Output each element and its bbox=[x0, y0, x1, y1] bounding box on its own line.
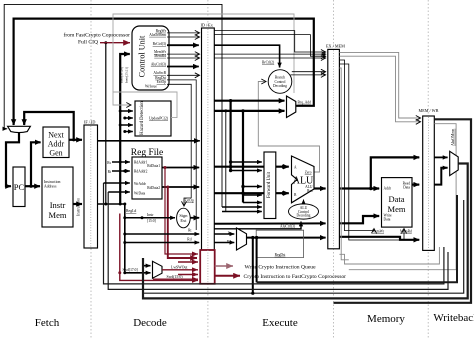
svg-text:from FastCrypto Coprocessor: from FastCrypto Coprocessor bbox=[64, 32, 131, 39]
Data Mem bbox=[382, 178, 413, 228]
LwSw mux bbox=[153, 261, 163, 278]
svg-text:Memory: Memory bbox=[367, 313, 405, 325]
bottom loop: WrData feedback bbox=[108, 192, 448, 289]
gray loop wire over Control Unit bbox=[113, 14, 294, 93]
svg-text:Write Crypto Instruction Queue: Write Crypto Instruction Queue bbox=[245, 264, 317, 270]
svg-text:Data: Data bbox=[403, 186, 410, 190]
svg-text:BrCtl(2): BrCtl(2) bbox=[262, 61, 275, 65]
thick bypass wire ALU result to MEM/WB bbox=[371, 157, 420, 188]
svg-text:Instruction: Instruction bbox=[44, 180, 61, 184]
svg-text:Full CIQ: Full CIQ bbox=[78, 40, 98, 46]
pipeline register ID/EX bbox=[202, 28, 215, 250]
svg-text:Control Unit: Control Unit bbox=[138, 35, 147, 77]
RegDst mux bbox=[237, 228, 247, 250]
wire Rd field to ID/EX bbox=[125, 242, 199, 244]
svg-text:RegDst: RegDst bbox=[155, 76, 166, 80]
Forward Unit bbox=[264, 152, 276, 219]
svg-text:MemRd: MemRd bbox=[400, 230, 412, 234]
svg-text:MemWr: MemWr bbox=[372, 230, 385, 234]
control wires MemWr MemRd through to EX/MEM bbox=[214, 53, 325, 55]
forward unit input junctions bbox=[229, 165, 232, 168]
EX/MEM register dotted line bbox=[333, 50, 335, 247]
svg-text:Rs: Rs bbox=[107, 161, 111, 165]
wire ID/EX operand B to ALU bbox=[214, 192, 288, 194]
svg-text:Mem: Mem bbox=[49, 210, 67, 220]
stage separator Memory/Writeback bbox=[427, 0, 429, 338]
svg-text:RdAddr1: RdAddr1 bbox=[134, 161, 148, 165]
junction on branch addr 2 bbox=[241, 109, 244, 112]
Branch Control Decoding circle bbox=[268, 70, 292, 94]
wire instr field up to Full CIQ node bbox=[105, 43, 107, 204]
svg-text:Crypto Instruction to FastCryp: Crypto Instruction to FastCrypto Coproce… bbox=[244, 274, 347, 280]
wire PC+4 through IF/ID to ID/EX bbox=[98, 140, 200, 142]
bottom loop: WrAddr feedback bbox=[104, 183, 444, 284]
MEM/WB register dotted line bbox=[428, 117, 430, 249]
stage separator Fetch/Decode bbox=[90, 0, 92, 338]
svg-text:RdData2: RdData2 bbox=[147, 186, 160, 190]
svg-text:A: A bbox=[294, 166, 297, 170]
Next Addr Gen bbox=[43, 127, 69, 158]
wire WrAddr from writeback loop bbox=[104, 182, 130, 184]
junction instruction bus bbox=[104, 203, 107, 206]
svg-text:EX / MEM: EX / MEM bbox=[326, 44, 345, 49]
Instr Mem bbox=[42, 167, 73, 227]
svg-text:Next: Next bbox=[48, 131, 64, 140]
hazard input wires from instruction bus bbox=[119, 110, 122, 113]
control signal AluCtrl wire (thick) bbox=[167, 66, 199, 68]
wire writeback mux output down right side bbox=[143, 164, 468, 299]
maroon wire RdData1 down to crypto queue reg bbox=[165, 168, 198, 255]
wire AluCtrl from ID/EX to EX/MEM bbox=[214, 222, 325, 224]
svg-text:Decoding: Decoding bbox=[273, 84, 287, 88]
fetch PC-source mux bbox=[8, 126, 31, 132]
thin wb loop from MEM/WB right bbox=[349, 124, 456, 270]
EX/MEM lower wrap loop thin bbox=[339, 247, 439, 264]
svg-text:UpdatePC(2): UpdatePC(2) bbox=[149, 116, 169, 120]
junction on branch addr 1 bbox=[229, 99, 232, 102]
maroon wires into crypto queue register bbox=[178, 261, 198, 263]
writeback mux bbox=[450, 151, 459, 175]
wire RdData2 to ID/EX bbox=[162, 186, 199, 188]
wire into LwSw mux input2 bbox=[125, 272, 151, 274]
wire ALU result EX/MEM to Data Mem Addr bbox=[339, 187, 379, 189]
thick bus down from branch addr junction to forward unit column bbox=[230, 101, 232, 171]
svg-text:Data: Data bbox=[388, 194, 404, 204]
svg-text:RdData1: RdData1 bbox=[147, 164, 160, 168]
wire instruction bus out of IF/ID bbox=[98, 203, 125, 205]
control signal MemRd wire bbox=[167, 57, 200, 59]
Hazard Detection unit bbox=[135, 101, 171, 136]
wire instr opcode bus up to Control Unit bbox=[120, 54, 130, 204]
forward unit input arrows bbox=[231, 161, 262, 163]
ALU bbox=[292, 156, 315, 203]
bottom loop: mid bbox=[142, 200, 464, 293]
top feedback wire (thin) from branch area to fetch mux left bbox=[4, 4, 222, 207]
svg-text:PC: PC bbox=[14, 182, 25, 192]
wire MEM/WB ALU value to writeback mux bbox=[434, 156, 447, 158]
wire ExtOp arrow into Sign Ext top bbox=[184, 198, 191, 206]
maroon wire Swd(15:0) to crypto queue reg bbox=[153, 278, 198, 280]
svg-text:Instr: Instr bbox=[147, 213, 154, 217]
svg-text:AluCtrl(3): AluCtrl(3) bbox=[151, 62, 167, 66]
wire Rt into RdAddr2 bbox=[123, 170, 126, 173]
svg-text:WrAddr: WrAddr bbox=[134, 182, 147, 186]
wire mux output down-left to PC input bbox=[6, 133, 19, 186]
PC+4 loop wire into fetch mux top input 2 bbox=[24, 112, 73, 140]
forward unit outputs to ALU A and B bbox=[276, 166, 287, 168]
wire circle outputs to EX/MEM bbox=[291, 74, 326, 76]
crypto instruction queue register (maroon) bbox=[200, 250, 215, 284]
svg-text:AluSrcB: AluSrcB bbox=[153, 71, 166, 75]
wire WrData from writeback loop bbox=[108, 191, 130, 193]
svg-text:Data: Data bbox=[384, 218, 391, 222]
svg-text:Mem: Mem bbox=[388, 204, 406, 214]
RegDst select loop box bbox=[256, 230, 303, 257]
wire Instr Mem output to IF/ID bbox=[73, 203, 82, 205]
junction NAG output bbox=[72, 138, 75, 141]
wire ALU result bypass to MEM/WB bbox=[339, 237, 419, 240]
Sign Ext bbox=[177, 208, 191, 228]
wire Sign Ext to ID/EX bbox=[190, 217, 199, 219]
control signal MemWr wire bbox=[167, 53, 200, 55]
svg-text:RegLd: RegLd bbox=[126, 209, 136, 213]
svg-text:RdAddr2: RdAddr2 bbox=[134, 170, 148, 174]
wire instr imm to Sign Ext bbox=[141, 216, 144, 219]
svg-text:ID / Ex: ID / Ex bbox=[201, 23, 214, 28]
junction PC-out bbox=[29, 185, 32, 188]
MemRd wire down to Data Mem bbox=[339, 64, 404, 240]
maroon tap junction on RdData2 bbox=[166, 186, 169, 189]
wire Full CIQ into Control Unit (maroon) bbox=[100, 42, 130, 44]
wire vertical to forward unit lower input bbox=[225, 111, 227, 212]
wire Rt into RegDst mux bbox=[214, 233, 234, 235]
wire MEM/WB mem data loop to writeback mux bbox=[434, 168, 447, 185]
bottom loop: forwarding wrap bbox=[257, 195, 457, 282]
wire instr bus down decode column bbox=[124, 204, 126, 273]
wb control loop 2: EX/MEM to MEM/WB bbox=[339, 56, 420, 122]
svg-text:MemRd: MemRd bbox=[154, 54, 166, 58]
IF/ID register dotted line bbox=[90, 126, 92, 247]
maroon tap junction on RdData1 bbox=[164, 166, 167, 169]
wire UpdatePC loop to fetch bbox=[113, 92, 177, 118]
svg-text:AluOMem: AluOMem bbox=[450, 128, 455, 146]
stage separator Decode/Execute bbox=[207, 0, 209, 338]
control signal RegDst wire, branches down bbox=[167, 80, 196, 230]
svg-text:Swd(15:0): Swd(15:0) bbox=[167, 275, 184, 279]
wire ID/EX operand A to ALU bbox=[214, 166, 288, 168]
control signal BrCtrl wire (thick) bbox=[167, 44, 199, 46]
wire AluCtrl into decoder bbox=[214, 222, 301, 229]
wire ALU Control to ALU bbox=[303, 200, 305, 204]
svg-text:RegDst: RegDst bbox=[275, 253, 286, 257]
svg-text:Instr[25:21]: Instr[25:21] bbox=[124, 67, 128, 83]
RegWr/AluOrMem wires ID/EX to EX/MEM with step bbox=[214, 31, 325, 52]
wire PC to Instr Mem bbox=[25, 185, 40, 187]
svg-text:Ext: Ext bbox=[180, 218, 187, 223]
thick writeback loop from MEM/WB around right and bottom bbox=[334, 119, 472, 302]
svg-text:Instruction: Instruction bbox=[76, 197, 81, 216]
svg-text:LwSWOut: LwSWOut bbox=[171, 266, 188, 270]
control signal AluOrMem wire bbox=[167, 36, 200, 38]
wire store data EX/MEM to Data Mem Write Data bbox=[339, 216, 379, 223]
svg-text:Zero: Zero bbox=[305, 171, 312, 175]
svg-text:Decode: Decode bbox=[133, 317, 167, 329]
svg-text:IF / ID: IF / ID bbox=[84, 120, 95, 125]
svg-text:AluCtrl(3): AluCtrl(3) bbox=[280, 225, 296, 229]
svg-text:Res: Res bbox=[307, 189, 313, 193]
control signal AluSrcB wire bbox=[167, 74, 200, 76]
svg-text:ExtOp: ExtOp bbox=[185, 199, 195, 203]
Control Unit bbox=[132, 26, 169, 90]
wire Rd into RegDst mux bbox=[214, 242, 234, 244]
wire RegDst mux output to EX/MEM bbox=[247, 237, 326, 239]
Reg File bbox=[132, 157, 162, 199]
wire arrow into fetch mux left input bbox=[4, 128, 7, 130]
maroon wire RegLd column down bbox=[120, 214, 198, 281]
svg-text:Instr[31:26]: Instr[31:26] bbox=[120, 67, 124, 83]
dark maroon wire Crypto Instruction to FastCrypto Coprocessor bbox=[215, 275, 240, 277]
svg-text:Rt: Rt bbox=[188, 229, 191, 233]
svg-text:ExtOp: ExtOp bbox=[157, 80, 167, 84]
ID/EX register dotted line bbox=[207, 29, 209, 283]
svg-text:Brq_Add: Brq_Add bbox=[298, 101, 312, 105]
svg-text:AluOrMem: AluOrMem bbox=[149, 33, 166, 37]
svg-text:Rd: Rd bbox=[187, 237, 191, 241]
thick wire branch addr 2 into branch mux bbox=[214, 110, 284, 112]
MemWr wire down to Data Mem bbox=[339, 60, 374, 231]
wire Read Data to MEM/WB bbox=[412, 184, 419, 186]
pipeline register EX/MEM bbox=[328, 49, 340, 248]
svg-text:WrIssue: WrIssue bbox=[145, 85, 157, 89]
svg-text:Instr: Instr bbox=[50, 200, 66, 210]
control signal RegWr wire bbox=[167, 32, 200, 34]
wb control loop 1: EX/MEM to MEM/WB bbox=[339, 52, 420, 118]
wire PC up to Next Addr Gen bbox=[31, 142, 41, 186]
maroon wire RdData2 down to crypto queue reg bbox=[168, 187, 197, 258]
thick pair down from RegDst mux to bottom loops bbox=[251, 236, 254, 239]
ALU Control Decoding ellipse bbox=[289, 204, 319, 219]
svg-text:Fetch: Fetch bbox=[35, 317, 60, 329]
svg-text:Rt: Rt bbox=[108, 170, 111, 174]
arrow into fetch mux top input 1 bbox=[13, 119, 15, 125]
svg-text:Forward Unit: Forward Unit bbox=[267, 171, 272, 198]
svg-text:Execute: Execute bbox=[262, 317, 298, 329]
branch target mux bbox=[287, 96, 296, 118]
svg-text:Addr: Addr bbox=[384, 187, 392, 191]
svg-text:Address: Address bbox=[44, 185, 57, 189]
svg-text:[15:0]: [15:0] bbox=[147, 219, 156, 223]
junction ALU result bbox=[369, 187, 372, 190]
svg-text:BrCtrl(3): BrCtrl(3) bbox=[153, 42, 167, 46]
wire Zero flag loop into circle left input bbox=[258, 82, 319, 173]
pipeline register MEM/WB bbox=[423, 116, 435, 250]
pipeline register IF/ID bbox=[84, 125, 98, 248]
control signal ExtOp wire, down to Sign Ext bbox=[167, 84, 191, 198]
wire Rs into RdAddr1 bbox=[119, 161, 122, 164]
PC bbox=[13, 167, 25, 207]
thick wire branch addr 1 into branch mux bbox=[214, 100, 284, 102]
wire BrCtl into branch decoding circle bbox=[214, 45, 279, 67]
light maroon wire Write Crypto Instruction Queue bbox=[215, 265, 233, 267]
wire RdData1 to ID/EX bbox=[162, 167, 199, 169]
thick branch-taken loop wire: Brq_Add up and across top to fetch mux bbox=[14, 19, 314, 124]
svg-text:Gen: Gen bbox=[49, 149, 62, 158]
svg-text:Hazard Detection: Hazard Detection bbox=[140, 101, 145, 135]
maroon wire LwSWOut to crypto queue reg bbox=[162, 269, 198, 271]
svg-text:Writeback: Writeback bbox=[433, 312, 474, 324]
svg-text:Decoding: Decoding bbox=[297, 214, 311, 218]
stage separator Execute/Memory bbox=[333, 0, 335, 338]
svg-text:MEM / WB: MEM / WB bbox=[419, 108, 439, 113]
wire ALU result to EX/MEM bbox=[314, 187, 326, 189]
wire Next Addr Gen output to IF/ID bbox=[69, 139, 82, 141]
svg-text:Addr: Addr bbox=[48, 140, 65, 149]
wire from writeback loop into LwSw mux input1 bbox=[143, 258, 151, 266]
svg-text:WrData: WrData bbox=[134, 192, 146, 196]
wire Rt field to ID/EX bbox=[125, 233, 199, 235]
